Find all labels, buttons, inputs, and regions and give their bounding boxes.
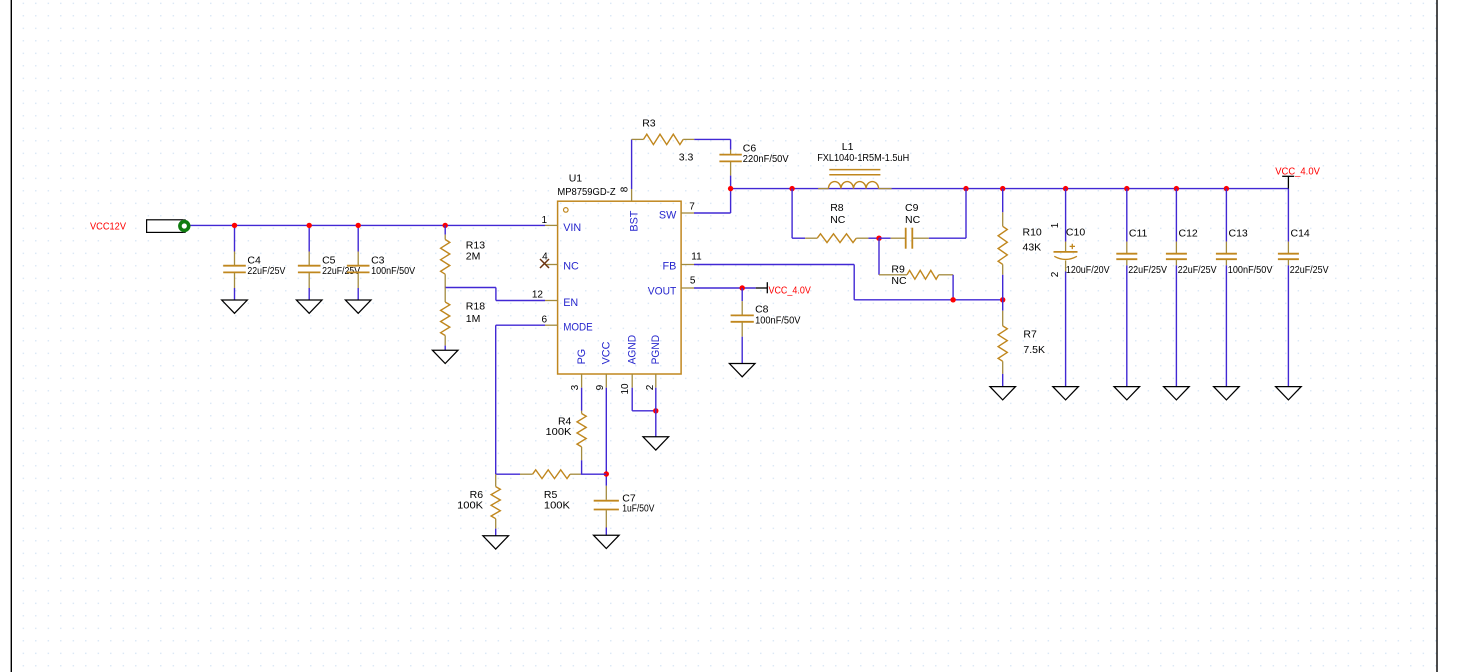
svg-text:2M: 2M <box>466 251 481 263</box>
svg-text:AGND: AGND <box>627 335 639 365</box>
svg-text:100nF/50V: 100nF/50V <box>755 315 800 327</box>
svg-text:8: 8 <box>619 186 630 192</box>
svg-text:3.3: 3.3 <box>679 152 694 164</box>
svg-text:120uF/20V: 120uF/20V <box>1066 264 1110 276</box>
svg-text:R10: R10 <box>1023 227 1042 239</box>
svg-text:100nF/50V: 100nF/50V <box>371 265 415 277</box>
svg-text:1: 1 <box>542 215 548 226</box>
svg-text:R3: R3 <box>642 117 656 129</box>
svg-text:11: 11 <box>691 251 702 262</box>
svg-text:5: 5 <box>690 276 696 287</box>
svg-text:SW: SW <box>659 210 677 222</box>
svg-text:43K: 43K <box>1023 242 1042 254</box>
svg-text:MP8759GD-Z: MP8759GD-Z <box>557 186 616 198</box>
svg-text:NC: NC <box>891 275 907 287</box>
svg-text:100K: 100K <box>546 426 572 438</box>
svg-text:VCC_4.0V: VCC_4.0V <box>1275 166 1320 178</box>
svg-text:7: 7 <box>689 202 695 213</box>
svg-text:1M: 1M <box>466 313 481 325</box>
svg-text:12: 12 <box>532 290 544 301</box>
svg-text:PG: PG <box>576 349 588 365</box>
svg-text:10: 10 <box>620 383 631 395</box>
svg-text:22uF/25V: 22uF/25V <box>247 265 285 277</box>
svg-text:3: 3 <box>570 384 581 390</box>
svg-text:4: 4 <box>542 252 548 263</box>
svg-text:VCC12V: VCC12V <box>90 221 126 233</box>
svg-text:BST: BST <box>629 210 641 231</box>
svg-text:2: 2 <box>645 384 656 390</box>
svg-text:U1: U1 <box>569 172 583 184</box>
svg-text:EN: EN <box>563 297 578 309</box>
svg-text:R7: R7 <box>1023 329 1037 341</box>
svg-text:100K: 100K <box>457 500 483 512</box>
svg-text:C9: C9 <box>905 202 919 214</box>
svg-text:22uF/25V: 22uF/25V <box>322 265 360 277</box>
svg-text:1: 1 <box>1050 222 1061 228</box>
svg-text:6: 6 <box>542 315 548 326</box>
svg-text:C10: C10 <box>1066 226 1085 238</box>
svg-text:22uF/25V: 22uF/25V <box>1128 264 1167 276</box>
svg-text:FB: FB <box>663 261 677 273</box>
svg-text:VCC_4.0V: VCC_4.0V <box>769 284 811 296</box>
svg-text:7.5K: 7.5K <box>1023 344 1045 356</box>
svg-text:R18: R18 <box>466 301 485 313</box>
svg-text:PGND: PGND <box>650 335 662 365</box>
svg-text:R13: R13 <box>466 239 485 251</box>
svg-text:NC: NC <box>563 261 579 273</box>
svg-text:NC: NC <box>830 214 846 226</box>
svg-text:220nF/50V: 220nF/50V <box>743 153 789 165</box>
svg-text:FXL1040-1R5M-1.5uH: FXL1040-1R5M-1.5uH <box>817 152 909 164</box>
svg-text:NC: NC <box>905 214 921 226</box>
svg-text:MODE: MODE <box>563 321 593 333</box>
svg-text:22uF/25V: 22uF/25V <box>1290 264 1329 276</box>
svg-text:C11: C11 <box>1129 227 1148 239</box>
svg-text:L1: L1 <box>842 141 854 153</box>
svg-text:VOUT: VOUT <box>648 285 677 297</box>
svg-text:VCC: VCC <box>601 341 613 364</box>
svg-text:R8: R8 <box>830 202 844 214</box>
svg-text:C14: C14 <box>1291 227 1310 239</box>
svg-text:9: 9 <box>595 384 606 390</box>
svg-text:22uF/25V: 22uF/25V <box>1178 264 1217 276</box>
svg-text:R9: R9 <box>891 263 905 275</box>
svg-text:2: 2 <box>1050 271 1061 277</box>
svg-text:1uF/50V: 1uF/50V <box>622 503 654 515</box>
svg-text:100nF/50V: 100nF/50V <box>1228 264 1273 276</box>
svg-text:C12: C12 <box>1179 227 1198 239</box>
svg-text:C13: C13 <box>1229 227 1248 239</box>
svg-text:100K: 100K <box>544 500 570 512</box>
svg-text:VIN: VIN <box>563 222 581 234</box>
